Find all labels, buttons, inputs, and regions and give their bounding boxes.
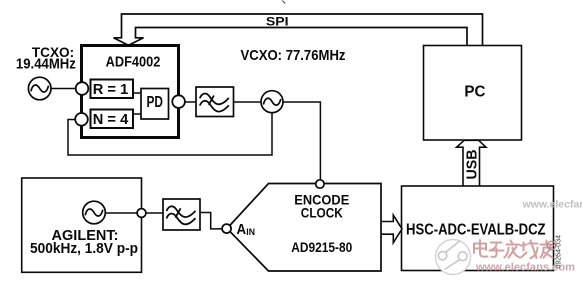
block AGILENT (22, 178, 142, 272)
svg-text:N = 4: N = 4 (93, 111, 129, 128)
svg-text:PC: PC (464, 84, 485, 101)
svg-text:09264-034: 09264-034 (556, 235, 563, 269)
source VCXO sine generator (261, 91, 283, 113)
svg-text:500kHz, 1.8V p-p: 500kHz, 1.8V p-p (30, 241, 138, 257)
node AGILENT output (137, 209, 146, 218)
watermark logo white circle (436, 240, 471, 275)
glyph 发 (505, 241, 520, 258)
glyph 电 (474, 240, 488, 257)
block R = 1 (91, 80, 134, 99)
svg-text:VCXO: 77.76MHz: VCXO: 77.76MHz (241, 47, 346, 64)
wire SPI bus inner boundary (129, 28, 468, 46)
svg-text:PD: PD (146, 94, 163, 111)
node PD output (172, 95, 185, 108)
block ADC AD9215-80 polygon (227, 184, 381, 272)
arrow ADC to HSC (hollow) (381, 215, 402, 243)
block PC (424, 46, 522, 141)
wire node to input filter (146, 212, 163, 214)
block N = 4 (91, 110, 134, 129)
svg-text:HSC-ADC-EVALB-DCZ: HSC-ADC-EVALB-DCZ (406, 221, 546, 238)
wire filter to AIN node (200, 213, 222, 229)
node N input (75, 113, 88, 126)
block PD (141, 89, 169, 120)
wire TCXO to R node (51, 88, 76, 90)
node encode clock input (316, 180, 324, 188)
node AIN (222, 224, 231, 233)
source AGILENT sine generator (83, 201, 106, 224)
node R input (76, 82, 89, 95)
svg-text:19.44MHz: 19.44MHz (16, 56, 76, 72)
svg-text:USB: USB (464, 149, 481, 179)
svg-text:IN: IN (246, 227, 255, 238)
filter input low-pass (163, 199, 200, 230)
wire AGILENT source to node (105, 212, 137, 214)
svg-text:ADF4002: ADF4002 (106, 55, 161, 71)
wire node to loop filter (185, 101, 196, 103)
svg-text:CLOCK: CLOCK (301, 204, 343, 220)
glyph 烧 (521, 241, 538, 259)
watermark CJK 电子发烧友 (drawn strokes) (474, 240, 553, 258)
svg-text:www.elecfans.com: www.elecfans.com (522, 198, 582, 210)
wire VCXO to encode clock node (283, 102, 320, 180)
block HSC-ADC-EVALB-DCZ (402, 186, 554, 271)
wire R to PD (133, 92, 141, 94)
svg-text:AD9215-80: AD9215-80 (291, 239, 352, 255)
tick artifact top (282, 1, 285, 4)
filter loop-filter (196, 87, 234, 117)
svg-text:R = 1: R = 1 (93, 81, 129, 98)
source TCXO sine generator (28, 77, 51, 100)
wire SPI bus outer boundary (114, 14, 483, 46)
wire filter to VCXO (234, 101, 262, 103)
wire N to PD (133, 113, 141, 115)
glyph 友 (541, 241, 553, 258)
block ADF4002 (82, 46, 179, 138)
wire VCXO feedback to N node (68, 113, 272, 155)
watermark registered mark (547, 241, 556, 250)
svg-text:A: A (237, 221, 247, 238)
arrow USB (hollow) (457, 140, 486, 186)
glyph 子 (490, 243, 504, 257)
svg-text:SPI: SPI (266, 15, 289, 29)
